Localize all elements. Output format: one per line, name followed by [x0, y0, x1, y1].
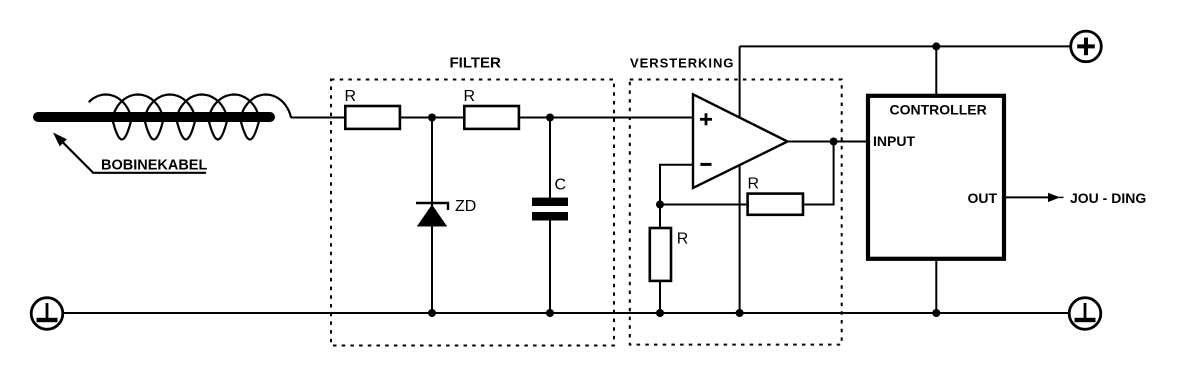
wire coil to R1 — [291, 117, 344, 119]
bobinekabel coil winding — [89, 95, 292, 140]
CONTROLLER box — [868, 96, 1004, 259]
node junction after R2 — [546, 114, 554, 122]
wire R1 to R2 — [401, 117, 463, 119]
node junction inverting — [656, 201, 664, 209]
svg-text:R: R — [464, 88, 476, 105]
op-amp - input sign — [700, 163, 711, 166]
svg-text:ZD: ZD — [455, 198, 476, 215]
svg-text:JOU - DING: JOU - DING — [1070, 190, 1146, 206]
node junction capacitor-rail — [546, 309, 554, 317]
resistor R2 — [464, 106, 519, 129]
node junction output — [830, 138, 838, 146]
arrow to bobinekabel — [53, 133, 206, 173]
op-amp + input sign — [700, 113, 712, 125]
plus supply symbol — [1071, 31, 1102, 62]
wire node to resistor R ground — [659, 205, 661, 228]
node junction controller-rail — [932, 309, 940, 317]
arrowhead OUT — [1048, 193, 1064, 202]
resistor R feedback — [748, 194, 803, 215]
zener diode ZD — [416, 203, 448, 227]
top supply rail — [740, 45, 1071, 47]
capacitor C — [532, 198, 568, 221]
wire top rail to controller — [935, 46, 937, 95]
svg-text:R: R — [677, 231, 689, 248]
bottom ground rail — [63, 312, 1070, 314]
svg-text:C: C — [555, 177, 567, 194]
wire node to zener ZD — [431, 118, 433, 207]
node junction R-rail — [656, 309, 664, 317]
wire op-amp output to controller INPUT — [788, 141, 867, 143]
resistor R to ground — [650, 228, 671, 281]
resistor R1 — [345, 106, 400, 129]
ground symbol right — [1069, 298, 1101, 330]
wire resistor to ground rail — [659, 282, 661, 313]
FILTER dashed box — [331, 80, 614, 346]
op-amp supply wire (behind triangle) — [739, 46, 741, 313]
svg-text:INPUT: INPUT — [873, 133, 915, 149]
wire controller to bottom rail — [935, 259, 937, 313]
svg-text:CONTROLLER: CONTROLLER — [890, 102, 987, 118]
wire OUT to arrow — [1006, 196, 1049, 198]
node junction zener-rail — [428, 309, 436, 317]
bobinekabel bar — [38, 112, 270, 122]
ground symbol left — [31, 298, 63, 330]
svg-text:R: R — [345, 88, 357, 105]
svg-text:R: R — [748, 176, 760, 193]
svg-text:FILTER: FILTER — [450, 55, 502, 72]
svg-text:OUT: OUT — [968, 190, 998, 206]
node junction after R1 — [428, 114, 436, 122]
svg-text:VERSTERKING: VERSTERKING — [630, 56, 734, 71]
node junction supply-rail — [736, 309, 744, 317]
wire R2 to op-amp + input — [520, 117, 693, 119]
VERSTERKING dashed box — [630, 80, 842, 345]
wire zener to ground rail — [431, 226, 433, 313]
wire feedback resistor to output node — [804, 142, 833, 205]
wire op-amp inverting input — [660, 165, 693, 205]
svg-text:BOBINEKABEL: BOBINEKABEL — [101, 157, 207, 173]
wire node to feedback resistor — [660, 204, 746, 206]
op-amp U1 triangle — [693, 94, 788, 188]
wire node to capacitor C — [549, 118, 551, 199]
node junction top rail — [932, 42, 940, 50]
wire capacitor to ground rail — [549, 221, 551, 314]
